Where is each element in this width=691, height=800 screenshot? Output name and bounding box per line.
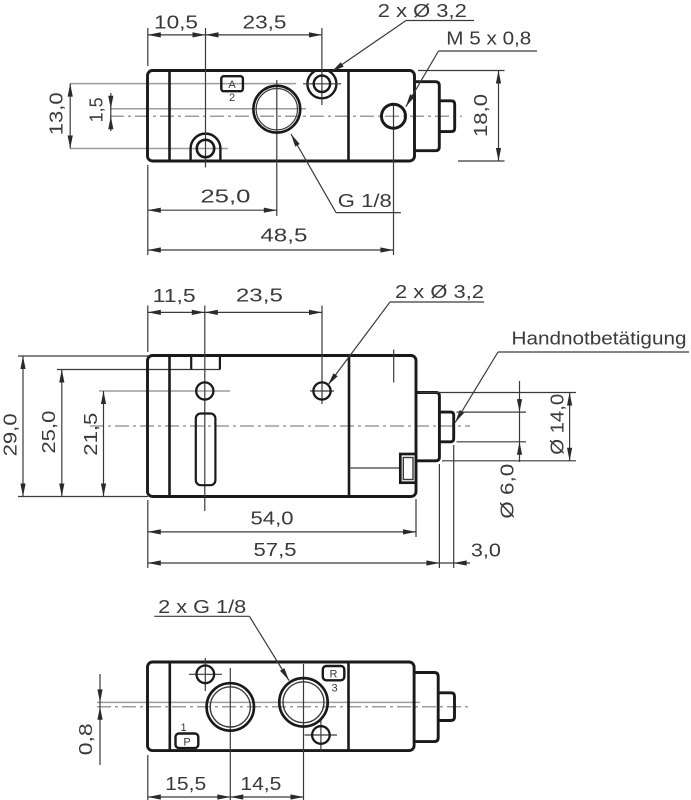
middle view: horizontal centerline <box>90 425 470 427</box>
middle view: extension line left top (11.5) <box>147 306 149 353</box>
middle view: port block inner <box>403 458 413 480</box>
bottom view: small hole bottom-right crosshair <box>320 719 322 752</box>
svg-text:Ø 14,0: Ø 14,0 <box>547 394 567 455</box>
svg-text:15,5: 15,5 <box>165 774 206 794</box>
dimension 25,0 middle view <box>61 370 63 497</box>
top view: end stub of M5 port <box>439 101 454 132</box>
svg-text:2 x G 1/8: 2 x G 1/8 <box>158 597 246 617</box>
top view: top mounting hole centerline <box>321 28 323 105</box>
top view: collar of M5 port <box>415 82 440 151</box>
top view: aux line through left mounting hole <box>70 148 228 150</box>
dimension 11,5 middle view <box>148 311 205 313</box>
svg-text:P: P <box>183 737 190 749</box>
middle view: extension line body top <box>18 355 148 357</box>
top view: top mounting hole crosshair <box>303 83 341 85</box>
middle view: extension line body bottom <box>18 496 148 498</box>
top view: left mounting hole centerline <box>205 28 207 168</box>
svg-text:1: 1 <box>180 722 186 734</box>
middle view: mounting hole 1 <box>196 382 213 399</box>
top view: left end cap line <box>168 71 171 162</box>
top view: G 1/8 port centerline <box>276 80 278 216</box>
svg-text:3: 3 <box>331 683 337 695</box>
dimension 23,5 middle view <box>205 311 322 313</box>
dimension 29,0 middle view <box>22 356 24 497</box>
middle view: left end cap line <box>168 356 171 497</box>
bottom view: small hole top-left <box>197 666 215 684</box>
bottom view: port R (G 1/8) <box>279 678 327 726</box>
dimension 18,0 extension lines <box>418 70 505 72</box>
bottom view: horizontal centerline <box>97 706 470 708</box>
svg-text:10,5: 10,5 <box>154 13 198 33</box>
dimension 1,5 top view <box>110 93 112 131</box>
middle view: extension left edge bottom <box>147 500 149 568</box>
middle view: mounting hole 2 Ø3.2 <box>313 382 330 399</box>
dimension 18,0 top view <box>498 71 500 162</box>
bottom view: small hole bottom-right <box>312 726 330 744</box>
middle view: extension line notch bottom (25.0) <box>57 369 220 371</box>
middle view: top notch <box>191 356 220 370</box>
svg-text:54,0: 54,0 <box>251 509 294 529</box>
bottom view: port label P box <box>176 734 199 749</box>
svg-text:M 5 x 0,8: M 5 x 0,8 <box>446 29 531 49</box>
middle view: mounting hole 1 centerline <box>204 306 206 512</box>
svg-text:29,0: 29,0 <box>0 413 20 456</box>
middle view: extension pin bottom edge <box>457 441 527 443</box>
top view: port label A box <box>221 76 243 91</box>
middle view: extension stub right bottom <box>438 464 440 568</box>
middle view: extension stub bottom edge <box>442 460 576 462</box>
bottom view: extension left edge bottom <box>147 755 149 800</box>
svg-text:G 1/8: G 1/8 <box>338 191 392 211</box>
svg-text:0,8: 0,8 <box>76 723 96 755</box>
svg-text:21,5: 21,5 <box>81 413 101 456</box>
leader to M5 hole <box>406 51 439 107</box>
dimension 3,0 middle view <box>439 562 470 564</box>
middle view: body division line <box>348 356 351 497</box>
top view: valve body outline <box>148 71 415 162</box>
svg-text:2 x Ø 3,2: 2 x Ø 3,2 <box>378 1 467 21</box>
middle view: manual override stub <box>416 393 439 461</box>
middle view: extension line hole axis (21.5) <box>99 390 230 392</box>
svg-text:1,5: 1,5 <box>87 97 107 122</box>
dimension 0,8 <box>99 674 101 765</box>
top view: aux reference line (1.5) <box>110 108 306 110</box>
svg-text:18,0: 18,0 <box>471 94 491 137</box>
leader to Ø3.2 hole middle view <box>328 302 390 385</box>
bottom view: valve body outline <box>148 662 415 751</box>
middle view: extension stub top edge <box>419 392 576 394</box>
svg-text:Handnotbetätigung: Handnotbetätigung <box>512 329 687 349</box>
middle view: exhaust passage hidden line <box>349 467 400 469</box>
leader to manual override pin <box>455 352 498 423</box>
bottom view: port P (G 1/8) <box>207 683 254 730</box>
bottom view: port P centerline vertical <box>229 668 231 800</box>
svg-text:25,0: 25,0 <box>39 411 59 454</box>
top view: M5 port hole <box>382 104 406 128</box>
middle view: manual override pin <box>439 412 453 442</box>
bottom view: port R axis line <box>97 701 420 703</box>
leader to port R <box>249 616 289 680</box>
middle view: extension pin top edge <box>457 411 527 413</box>
dimension 23,5 top view <box>206 34 323 36</box>
bottom view: port label R box <box>323 666 345 680</box>
middle view: mounting hole 2 crosshair <box>310 390 334 392</box>
top view: G 1/8 port circle <box>253 86 300 133</box>
top view: left mounting hole boss <box>191 134 221 161</box>
middle view: extension pin right bottom <box>453 445 455 568</box>
bottom view: collar <box>414 673 438 742</box>
middle view: port block outer <box>400 454 416 483</box>
svg-text:2 x Ø 3,2: 2 x Ø 3,2 <box>395 282 484 302</box>
top view: M5 hole centerline <box>393 103 395 255</box>
svg-text:A: A <box>228 79 236 91</box>
dimension 21,5 middle view <box>103 391 105 497</box>
svg-text:25,0: 25,0 <box>200 186 250 206</box>
svg-text:14,5: 14,5 <box>240 774 281 794</box>
svg-text:23,5: 23,5 <box>236 286 283 306</box>
svg-text:11,5: 11,5 <box>153 286 196 306</box>
top view: body division line <box>347 71 350 162</box>
dimension 15,5 bottom view <box>148 796 231 798</box>
bottom view: small hole top-left crosshair <box>204 658 206 691</box>
dimension Ø 6,0 <box>519 381 521 462</box>
bottom view: body division line <box>347 662 350 751</box>
svg-text:13,0: 13,0 <box>47 92 67 135</box>
middle view: mounting hole 2 centerline <box>321 306 323 405</box>
svg-text:3,0: 3,0 <box>471 540 501 560</box>
svg-text:R: R <box>330 669 338 681</box>
dimension Ø 14,0 <box>569 393 571 461</box>
top view: aux reference line (13.0) <box>70 83 296 85</box>
dimension 13,0 top view <box>69 84 71 149</box>
dimension 57,5 middle view <box>148 562 440 564</box>
svg-text:48,5: 48,5 <box>260 225 307 245</box>
bottom view: end stub <box>438 693 454 721</box>
leader to Ø3.2 hole top view <box>332 21 407 72</box>
svg-text:23,5: 23,5 <box>243 13 287 33</box>
top view: horizontal centerline <box>110 115 462 117</box>
svg-text:57,5: 57,5 <box>254 540 297 560</box>
top view: top mounting hole boss arc <box>307 69 336 98</box>
top view: left mounting hole <box>197 140 214 157</box>
middle view: valve body outline <box>148 356 417 497</box>
bottom view: left end cap line <box>169 662 172 751</box>
top view: extension line left edge top <box>147 28 149 66</box>
dimension 48,5 top view <box>148 249 394 251</box>
dimension 14,5 bottom view <box>230 796 303 798</box>
leader to G 1/8 port <box>291 134 336 213</box>
dimension 10,5 top view <box>148 34 206 36</box>
bottom view: port R centerline vertical <box>303 664 305 800</box>
dimension 54,0 middle view <box>148 531 416 533</box>
dimension 25,0 top view <box>148 209 277 211</box>
top view: top mounting hole Ø3.2 <box>314 76 330 92</box>
middle view: slot <box>196 414 216 486</box>
svg-text:Ø 6,0: Ø 6,0 <box>497 464 517 519</box>
top view: extension line left edge bottom <box>147 165 149 255</box>
middle view: M5 axis tick <box>393 350 395 383</box>
svg-text:2: 2 <box>229 92 235 104</box>
middle view: extension body right bottom <box>415 499 417 537</box>
